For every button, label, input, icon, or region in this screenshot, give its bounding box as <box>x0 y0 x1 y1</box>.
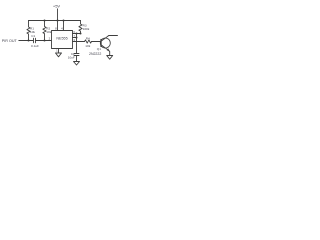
power label +5V <box>53 4 61 9</box>
wire: R4 to Q1 base <box>92 41 102 43</box>
pin number 8 <box>55 26 57 30</box>
node: rail/VCC junction <box>57 20 59 22</box>
label C2 <box>71 52 75 56</box>
pin number 4 <box>61 26 63 30</box>
svg-text:100k: 100k <box>83 27 90 31</box>
pin number 6 <box>73 30 75 34</box>
wire: 6/7 tie down to C2 <box>76 34 78 54</box>
label C1 <box>31 34 35 38</box>
wire: Q1 collector to right <box>108 35 117 37</box>
label R3 value 100k <box>83 27 90 31</box>
label Q1 part 2N2222 <box>89 52 101 56</box>
node: rail/pin4 junction <box>63 20 65 22</box>
resistor R1 <box>27 21 30 41</box>
svg-text:10uF: 10uF <box>68 56 75 60</box>
label Q1 <box>97 47 101 51</box>
svg-text:1: 1 <box>56 49 58 53</box>
label C2 value 10uF <box>68 56 75 60</box>
label R4 <box>86 37 90 41</box>
svg-text:0.1uF: 0.1uF <box>31 44 39 48</box>
svg-text:PIR OUT: PIR OUT <box>2 39 18 43</box>
label PIR OUT <box>2 39 18 43</box>
svg-text:4: 4 <box>61 26 63 30</box>
wire: top rail <box>29 20 81 22</box>
pin number 2 <box>49 37 51 41</box>
resistor R4 <box>85 40 92 43</box>
svg-text:8: 8 <box>55 26 57 30</box>
ground below C2 <box>74 62 80 66</box>
wire: pin 6 stub to R3 <box>73 33 81 35</box>
capacitor C1 <box>34 38 36 43</box>
label R2 value 10k <box>46 30 51 34</box>
svg-text:2: 2 <box>49 37 51 41</box>
node: pin6 tie junction <box>76 33 78 35</box>
label R2 <box>46 26 50 30</box>
svg-text:10k: 10k <box>85 44 90 48</box>
node: rail/R2 junction <box>44 20 46 22</box>
svg-text:2N2222: 2N2222 <box>89 52 101 56</box>
wire: PIR OUT to C1 left plate <box>19 40 34 42</box>
pin number 3 <box>73 38 75 42</box>
resistor R2 <box>43 21 46 41</box>
pin number 1 <box>56 49 58 53</box>
label R4 value 10k <box>85 44 90 48</box>
svg-text:R4: R4 <box>86 37 90 41</box>
label NE555 <box>56 36 67 40</box>
svg-text:+5V: +5V <box>53 4 61 9</box>
label R3 <box>83 23 87 27</box>
capacitor C2 <box>74 54 79 62</box>
wire: pin 4 stub <box>63 21 65 31</box>
wire: +5V supply down to rail <box>57 9 59 21</box>
resistor R3 <box>79 21 82 34</box>
wire: pin 7 stub <box>73 37 77 39</box>
wire: C1 to pin 2 <box>36 40 52 42</box>
wire: pin 3 output stub <box>73 41 85 43</box>
node: trigger junction R2/C1 <box>44 40 46 42</box>
node: pin7 tie junction <box>76 37 78 39</box>
wire: Q1 emitter down <box>108 51 111 56</box>
svg-text:Q1: Q1 <box>97 47 101 51</box>
node: PIR/R1 junction <box>28 40 30 42</box>
ground below emitter <box>107 56 113 60</box>
ground below pin 1 <box>56 53 62 57</box>
svg-text:C1: C1 <box>31 34 35 38</box>
svg-text:10k: 10k <box>46 30 51 34</box>
pin number 7 <box>73 34 75 38</box>
IC U1 NE555 body <box>52 31 73 49</box>
label R1 <box>30 26 34 30</box>
transistor Q1 <box>100 36 110 51</box>
label C1 value 0.1uF <box>31 44 39 48</box>
svg-text:NE555: NE555 <box>56 36 67 40</box>
wire: pin 1 stub <box>58 49 60 54</box>
wire: pin 8 stub <box>57 21 59 31</box>
node: R3 bottom junction <box>80 33 82 35</box>
label R1 value 10k <box>30 30 35 34</box>
